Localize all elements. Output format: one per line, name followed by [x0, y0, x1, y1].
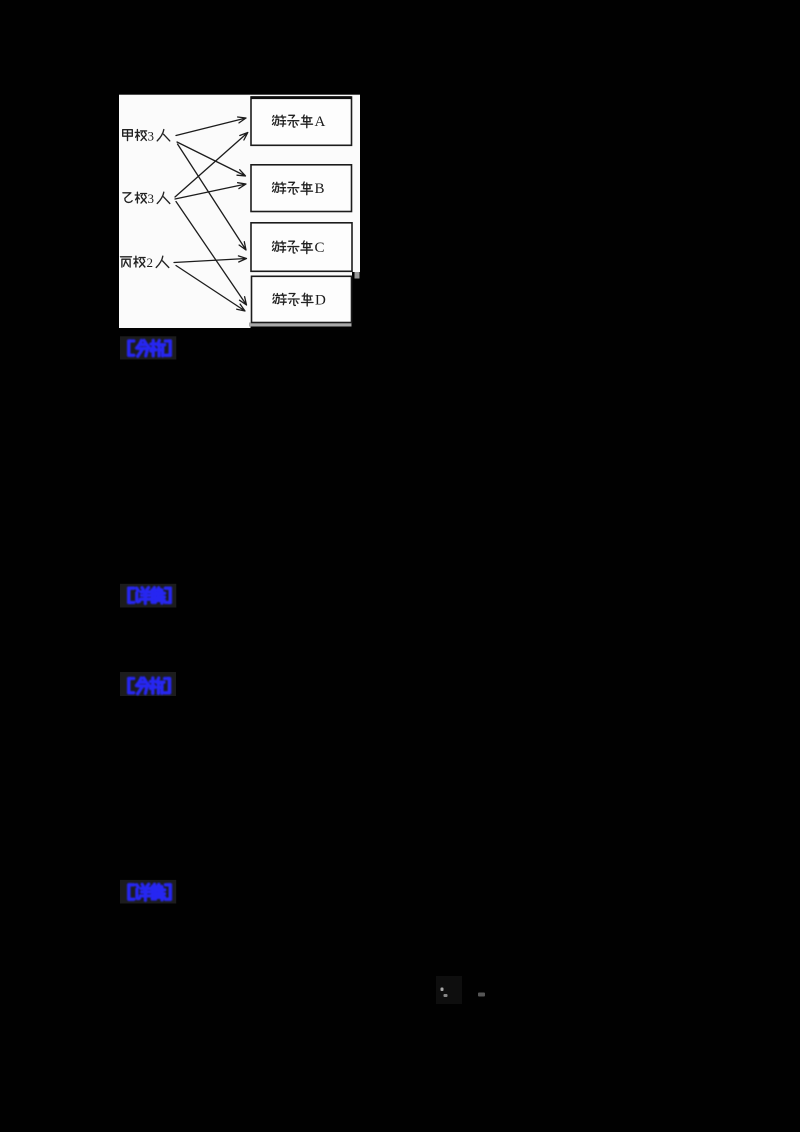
box 游乐车B: [251, 165, 352, 212]
faint formula dim mark: [478, 993, 485, 997]
svg-text:B: B: [315, 181, 325, 197]
annotation fenxi-2 blue text: [129, 678, 170, 694]
arrow 乙 to D: [176, 202, 247, 306]
arrow 丙 to C: [174, 256, 247, 263]
label 游乐车C: [272, 242, 275, 244]
gray sizing handle right of box C: [355, 272, 360, 279]
svg-text:A: A: [315, 114, 326, 130]
annotation box fenxi-1 backing: [120, 336, 176, 359]
arrow 乙 to B: [175, 183, 246, 199]
figure white background lower-left: [119, 271, 251, 328]
svg-text:3: 3: [148, 191, 155, 206]
figure white background main: [119, 95, 360, 272]
arrow 甲 to C: [178, 144, 247, 250]
svg-text:D: D: [315, 292, 326, 308]
label 游乐车B: [272, 183, 275, 185]
svg-text:2: 2: [147, 255, 154, 270]
faint formula residue area: [436, 976, 462, 1004]
annotation box fenxi-2 backing: [120, 672, 176, 696]
thick top border of box A: [251, 96, 352, 99]
arrow 甲 to A: [176, 117, 246, 136]
annotation xiangjie-1 blue text: [129, 588, 171, 604]
label 游乐车A: [272, 116, 275, 118]
faint formula bright speck 2: [444, 994, 448, 997]
svg-text:C: C: [315, 240, 325, 256]
annotation xiangjie-2 blue text: [129, 884, 171, 900]
label 游乐车D: [272, 294, 275, 296]
arrow 丙 to D: [176, 266, 245, 312]
arrow 甲 to B: [177, 142, 246, 176]
annotation box xiangjie-2 backing: [120, 880, 176, 904]
figure white background around box D: [251, 271, 353, 323]
gray shadow strip under box D: [249, 323, 352, 327]
label 甲校3人: [123, 130, 133, 137]
label 乙校3人: [123, 193, 132, 203]
box 游乐车D: [252, 276, 352, 322]
box 游乐车C: [251, 223, 352, 271]
label 丙校2人: [121, 256, 132, 258]
faint formula bright speck 1: [441, 988, 444, 992]
annotation fenxi-1 blue text: [129, 341, 171, 357]
box 游乐车A: [251, 97, 352, 145]
annotation box xiangjie-1 backing: [120, 584, 176, 608]
svg-text:3: 3: [148, 129, 155, 144]
arrow 乙 to A: [175, 133, 248, 198]
